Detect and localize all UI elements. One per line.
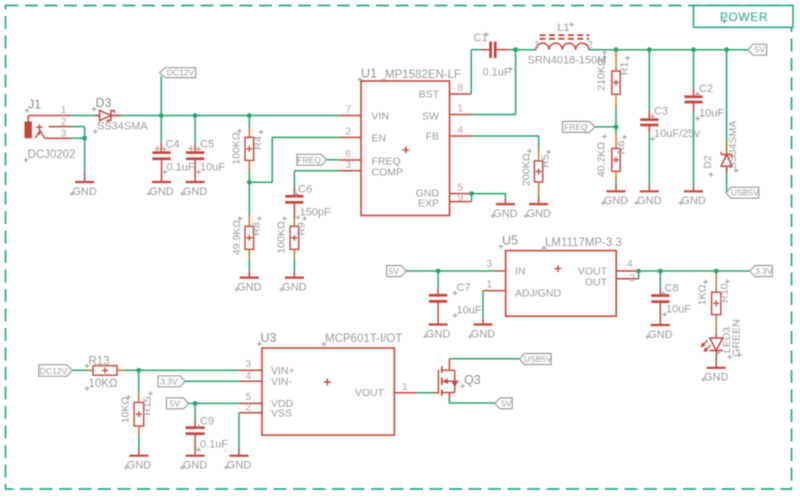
pin U1 BST 8 [450, 93, 472, 95]
ground C3 [648, 185, 650, 191]
net label 3.3V at U3 [158, 376, 185, 387]
svg-text:5V: 5V [755, 45, 766, 55]
svg-text:0.1uF: 0.1uF [200, 439, 228, 451]
wire VIN12 main rail [70, 115, 339, 117]
svg-text:4: 4 [627, 259, 633, 270]
ground C9 [194, 450, 196, 456]
svg-text:DC12V: DC12V [40, 366, 68, 376]
svg-text:C2: C2 [699, 83, 713, 95]
svg-text:EN: EN [372, 133, 387, 145]
ground C2 [693, 185, 695, 191]
svg-text:R15: R15 [142, 396, 154, 415]
node R13-R15 junction [136, 368, 141, 373]
net label FREQ at U1 [297, 154, 327, 165]
svg-text:1: 1 [458, 104, 464, 115]
svg-text:2: 2 [61, 117, 67, 128]
svg-text:FREQ: FREQ [564, 122, 588, 132]
resistor R8 49.9K [248, 182, 250, 215]
ground R5 [538, 196, 540, 204]
svg-text:GND: GND [227, 460, 252, 472]
svg-text:10uF: 10uF [200, 161, 225, 173]
resistor R10 1K [715, 271, 717, 274]
wire 3.3V rail [637, 270, 750, 272]
svg-text:L1: L1 [557, 22, 569, 34]
svg-text:GND: GND [72, 186, 97, 198]
node VOUT-OUT junction [636, 269, 641, 274]
pin U5 IN 3 [494, 270, 505, 272]
svg-text:GND: GND [704, 372, 729, 384]
regulator U5 LM1117MP-3.3 box [506, 251, 617, 317]
pin U3 VIN+ 3 [239, 369, 262, 371]
wire ADJ to ground [482, 291, 484, 319]
pin U5 ADJ 1 [483, 290, 506, 292]
wire OUT riser [637, 271, 639, 279]
svg-text:C1: C1 [474, 32, 488, 44]
svg-text:GND: GND [282, 282, 307, 294]
wire 5V to U5 IN [406, 270, 494, 272]
svg-text:10uF: 10uF [666, 304, 691, 316]
svg-text:C8: C8 [665, 283, 679, 295]
capacitor C5 10uF [194, 116, 196, 144]
svg-text:C5: C5 [200, 138, 214, 150]
svg-text:EXP: EXP [418, 198, 439, 210]
net label DC12V top [160, 68, 196, 78]
node VIN12-C5 junction [193, 113, 198, 118]
wire Q3 source to 5V [449, 398, 495, 403]
svg-text:GND: GND [604, 195, 629, 207]
svg-text:1: 1 [486, 280, 492, 291]
svg-text:GREEN: GREEN [730, 319, 742, 356]
svg-text:10KΩ: 10KΩ [120, 397, 132, 424]
svg-text:7: 7 [345, 104, 351, 115]
node 3V3-R10 junction [714, 269, 719, 274]
svg-text:C6: C6 [298, 184, 312, 196]
resistor R1 210K [615, 51, 617, 71]
wire U3 VOUT to Q3 gate [416, 392, 433, 394]
ground R6 [615, 185, 617, 191]
svg-text:LM1117MP-3.3: LM1117MP-3.3 [545, 237, 622, 249]
svg-text:U5: U5 [502, 234, 518, 248]
svg-text:FREQ: FREQ [297, 155, 321, 165]
resistor R6 40.2K [615, 127, 617, 134]
svg-text:8: 8 [458, 83, 464, 94]
svg-text:GND: GND [637, 195, 662, 207]
svg-text:2: 2 [630, 273, 636, 284]
node J1 pins 2-3 junction [82, 136, 87, 141]
svg-text:100KΩ: 100KΩ [231, 132, 243, 165]
svg-text:BST: BST [419, 89, 440, 101]
inductor L1 SRN4018-150M [516, 49, 536, 51]
node 5V-R1 junction [614, 47, 619, 52]
svg-text:DC12V: DC12V [167, 68, 195, 78]
svg-text:4: 4 [245, 371, 251, 382]
resistor R4 100K [248, 116, 250, 128]
svg-text:VSS: VSS [271, 408, 292, 420]
wire U1 GND/EXP to ground [469, 191, 474, 196]
op-amp U3 MCP601T-I/OT box [262, 348, 394, 435]
resistor R15 10K [138, 370, 140, 393]
ground U1 [504, 199, 506, 204]
pin U5 VOUT 4 [616, 270, 637, 272]
svg-text:R8: R8 [251, 222, 263, 236]
diode D3 SS34SMA [95, 115, 100, 117]
ground R15 [138, 449, 140, 456]
svg-text:3: 3 [345, 160, 351, 171]
wire SW riser [471, 50, 515, 115]
wire FB net [472, 136, 539, 149]
pin U3 VDD 5 [239, 402, 262, 404]
svg-text:C7: C7 [457, 282, 471, 294]
svg-text:1KΩ: 1KΩ [697, 285, 709, 306]
svg-text:C3: C3 [654, 106, 668, 118]
svg-text:GND: GND [681, 195, 706, 207]
LED LED3 GREEN [715, 334, 717, 338]
wire R13 to U3 VIN+ [124, 369, 239, 371]
svg-text:SS34SMA: SS34SMA [727, 121, 739, 169]
ground U5 ADJ [482, 319, 484, 325]
svg-text:FB: FB [426, 131, 439, 143]
svg-text:40.2KΩ: 40.2KΩ [596, 142, 608, 177]
resistor R5 200K [538, 147, 540, 161]
pin U1 COMP 3 [339, 170, 361, 172]
net label USB5V at Q3 [519, 354, 551, 365]
wire VSS to ground [238, 413, 240, 449]
ground C7 [437, 319, 439, 325]
svg-text:COMP: COMP [372, 166, 404, 178]
node VIN12-C4 junction [159, 113, 164, 118]
svg-text:GND: GND [127, 460, 152, 472]
svg-text:1: 1 [402, 382, 408, 393]
svg-text:5V: 5V [389, 266, 400, 276]
svg-text:GND: GND [149, 186, 174, 198]
node R4 bottom junction [247, 180, 252, 185]
ground R8 [248, 271, 250, 278]
wire to DC12V label [160, 76, 162, 116]
svg-text:49.9KΩ: 49.9KΩ [231, 220, 243, 255]
wire COMP net [294, 170, 339, 172]
svg-text:10KΩ: 10KΩ [89, 378, 118, 390]
node 5V-C3 junction [647, 47, 652, 52]
svg-text:R4: R4 [252, 136, 264, 150]
svg-text:VOUT: VOUT [578, 265, 608, 277]
node VIN12-R4 junction [247, 113, 252, 118]
svg-text:POWER: POWER [720, 10, 768, 24]
pin U1 FREQ 6 [339, 159, 361, 161]
svg-text:R5: R5 [540, 154, 552, 168]
capacitor C6 150pF [293, 188, 295, 195]
svg-text:C4: C4 [166, 138, 180, 150]
net label 5V at U3 [166, 398, 188, 409]
wire EN net [249, 137, 339, 182]
title block POWER [694, 6, 794, 28]
svg-text:MP1582EN-LF: MP1582EN-LF [385, 69, 461, 81]
svg-text:6: 6 [345, 149, 351, 160]
svg-text:5V: 5V [170, 398, 181, 408]
svg-text:D3: D3 [96, 96, 112, 110]
wire 5V rail [589, 49, 748, 51]
pin U1 SW 1 [450, 114, 472, 116]
svg-text:SW: SW [422, 111, 439, 123]
svg-text:OUT: OUT [585, 277, 608, 289]
pin U1 EN 2 [339, 136, 361, 138]
svg-text:Q3: Q3 [464, 373, 481, 387]
svg-text:5V: 5V [501, 398, 512, 408]
svg-text:VOUT: VOUT [355, 387, 385, 399]
svg-text:9: 9 [458, 192, 464, 203]
svg-text:IN: IN [515, 265, 526, 277]
svg-text:200KΩ: 200KΩ [521, 153, 533, 186]
svg-text:SS34SMA: SS34SMA [97, 121, 148, 133]
diode D2 SS34SMA [726, 50, 728, 193]
svg-text:C9: C9 [200, 416, 214, 428]
svg-text:0.1uF: 0.1uF [167, 161, 195, 173]
svg-text:GND: GND [648, 329, 673, 341]
svg-text:3: 3 [245, 359, 251, 370]
net label DC12V at R13 [39, 365, 72, 377]
ground C4 [152, 181, 171, 183]
connector J1 DCJ0202 [25, 121, 32, 138]
node FREQ junction [614, 125, 619, 130]
wire BST riser [470, 50, 472, 94]
svg-text:GND: GND [237, 282, 262, 294]
svg-text:MCP601T-I/OT: MCP601T-I/OT [325, 333, 402, 345]
ground C5 [186, 181, 205, 183]
resistor R9 100K [290, 226, 299, 249]
ground C8 [659, 319, 661, 325]
svg-text:2: 2 [345, 126, 351, 137]
capacitor C4 0.1uF [160, 116, 162, 144]
svg-text:J1: J1 [28, 98, 41, 112]
node 5V-D2 junction [724, 47, 729, 52]
wire J1 to ground [84, 138, 86, 173]
svg-text:GND: GND [426, 328, 451, 340]
pin U3 VIN- 4 [239, 380, 262, 382]
svg-text:10uF: 10uF [457, 305, 482, 317]
node 3V3-C8 junction [658, 269, 663, 274]
capacitor C8 10uF [659, 271, 661, 288]
capacitor C3 10uF/25v [648, 50, 650, 111]
capacitor C7 10uF [437, 271, 439, 288]
op-amp U1 MP1582EN-LF box [361, 81, 450, 216]
pin U1 VIN 7 [339, 115, 361, 117]
svg-text:GND: GND [183, 186, 208, 198]
svg-text:GND: GND [493, 208, 518, 220]
capacitor C9 0.1uF [194, 403, 196, 420]
net label 3.3V right [750, 266, 773, 277]
net label 5V at U5 [387, 266, 407, 277]
svg-text:VIN: VIN [372, 111, 390, 123]
pin U1 EXP 9 [450, 201, 472, 203]
pin U1 FB 4 [450, 135, 472, 137]
ground J1 [84, 173, 86, 182]
svg-text:2: 2 [245, 402, 251, 413]
transistor Q3 P-MOSFET [433, 392, 438, 394]
svg-text:GND: GND [526, 208, 551, 220]
svg-text:USB5V: USB5V [524, 354, 552, 364]
ground R9 [293, 271, 295, 278]
svg-text:1: 1 [534, 40, 540, 51]
svg-text:U1: U1 [361, 67, 377, 81]
svg-text:R1: R1 [619, 62, 631, 76]
svg-text:3.3V: 3.3V [160, 376, 178, 386]
ground U3 VSS [238, 449, 240, 456]
node SW-C1-L1 junction [513, 47, 518, 52]
pin U5 OUT 2 [616, 278, 637, 280]
svg-text:GND: GND [183, 460, 208, 472]
resistor R13 10K [72, 369, 88, 371]
node 5V-C7 junction [436, 269, 441, 274]
svg-text:R9: R9 [296, 222, 308, 236]
svg-text:210KΩ: 210KΩ [596, 58, 608, 91]
svg-text:4: 4 [458, 125, 464, 136]
svg-text:ADJ/GND: ADJ/GND [515, 287, 562, 299]
svg-text:D2: D2 [702, 155, 714, 169]
capacitor C2 10uF [693, 50, 695, 89]
capacitor C1 0.1uF [481, 49, 489, 51]
svg-text:R10: R10 [718, 283, 730, 302]
svg-text:3: 3 [486, 259, 492, 270]
net label FREQ right [563, 121, 595, 132]
svg-text:U3: U3 [261, 331, 277, 345]
node 5V-C9 junction [193, 401, 198, 406]
svg-text:USB5V: USB5V [731, 188, 759, 198]
ground LED3 [715, 360, 717, 368]
pin U1 GND 5 [450, 193, 472, 195]
svg-text:1: 1 [61, 105, 67, 116]
wire Q3 drain to USB5V [449, 358, 519, 360]
svg-text:R6: R6 [616, 141, 628, 155]
node 5V-C2 junction [691, 47, 696, 52]
svg-text:0.1uF: 0.1uF [483, 67, 511, 79]
svg-text:3: 3 [61, 128, 67, 139]
svg-text:3.3V: 3.3V [755, 266, 773, 276]
net label 5V top right [748, 44, 767, 55]
net label USB5V at D2 [726, 187, 759, 198]
pin U3 VSS 2 [239, 412, 262, 414]
svg-text:VIN-: VIN- [271, 376, 293, 388]
svg-text:R13: R13 [89, 355, 110, 367]
svg-text:GND: GND [471, 328, 496, 340]
pin U3 VOUT 1 [394, 392, 416, 394]
svg-text:DCJ0202: DCJ0202 [28, 149, 76, 161]
net label 5V at Q3 [495, 398, 512, 409]
svg-text:10uF: 10uF [699, 108, 724, 120]
svg-text:100KΩ: 100KΩ [276, 221, 288, 254]
